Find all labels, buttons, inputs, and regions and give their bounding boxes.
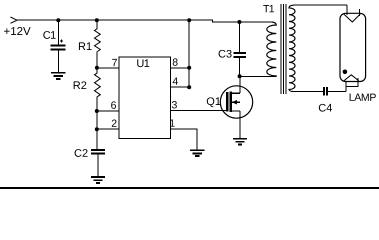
pin 1 (169, 118, 180, 130)
svg-text:C2: C2 (74, 148, 88, 160)
svg-text:1: 1 (169, 118, 175, 130)
pin 6 (106, 100, 119, 112)
lamp tube (340, 13, 366, 81)
svg-text:8: 8 (172, 57, 178, 69)
svg-text:R2: R2 (73, 80, 87, 92)
capacitor C3 (234, 53, 246, 57)
lamp dot (343, 70, 348, 75)
wire Q1 source down (239, 111, 241, 138)
node junction pin2 (95, 127, 99, 131)
wire C3 top (238, 22, 240, 52)
svg-text:R1: R1 (78, 41, 92, 53)
svg-text:+12V: +12V (3, 26, 31, 38)
capacitor C2 (91, 150, 105, 154)
wire pin3 to Q1 gate (181, 110, 227, 112)
svg-text:T1: T1 (263, 3, 275, 15)
wire C3 bottom (238, 58, 240, 77)
wire top rail (17, 20, 272, 22)
svg-text:4: 4 (172, 76, 178, 88)
wire C2 bottom (97, 155, 99, 177)
border bottom line (0, 187, 379, 189)
node junction pin6 (95, 109, 99, 113)
svg-text:2: 2 (111, 118, 117, 130)
lamp top pin lead (346, 5, 348, 15)
svg-text:LAMP: LAMP (349, 92, 377, 104)
node junction R1/R2/pin7 (95, 66, 99, 70)
ground under C2 (91, 177, 105, 183)
lamp top electrode (344, 14, 361, 22)
wire R1 bottom (96, 52, 98, 68)
svg-text:C4: C4 (318, 103, 332, 115)
ground under Q1 (233, 139, 247, 145)
pin 4 (170, 76, 180, 88)
wire primary bottom (240, 75, 277, 77)
wire pin4 to riser (181, 86, 190, 88)
lamp bottom pin stub (357, 78, 359, 87)
node junction pin4/riser (187, 85, 191, 89)
wire C2 top (96, 129, 98, 149)
svg-text:U1: U1 (136, 58, 149, 70)
wire R2 leads (96, 68, 98, 111)
resistor R1 (95, 29, 101, 52)
svg-text:C3: C3 (218, 49, 232, 61)
svg-text:C1: C1 (43, 30, 56, 42)
capacitor C1 (51, 39, 66, 49)
wire Q1 drain up (239, 76, 241, 93)
transistor Q1 NMOS (220, 86, 252, 118)
wire C1 top (57, 20, 59, 45)
node junction R1/rail (95, 18, 99, 22)
wire pin7 (97, 67, 119, 69)
pin 8 (170, 57, 180, 69)
node junction pin8/riser (187, 66, 191, 70)
pin 7 (106, 57, 119, 69)
lamp bottom pin lead (345, 82, 347, 92)
wire pin8 to riser (181, 67, 190, 69)
ground under pin1 (190, 150, 205, 156)
node junction C3/drain/primary (238, 74, 242, 78)
wire C1 bottom (57, 51, 59, 73)
transformer T1 core (281, 4, 286, 94)
wire secondary top to lamp (294, 4, 347, 6)
wire pin2 (97, 128, 119, 130)
svg-text:3: 3 (171, 99, 177, 111)
wire R1 top (96, 20, 98, 28)
wire C4 to lamp (328, 91, 346, 93)
wire secondary bottom to C4 (293, 91, 323, 93)
IC U1 555 timer box (119, 57, 170, 139)
pin 3 (170, 99, 180, 111)
transformer T1 primary winding (267, 22, 277, 76)
wire riser rail to pin4 (188, 20, 190, 87)
lamp bottom electrode (344, 75, 359, 81)
node junction C3/rail (237, 20, 241, 24)
lamp top pin stub (358, 9, 360, 16)
svg-text:7: 7 (112, 57, 118, 69)
node +12V input port (11, 17, 18, 23)
node junction C1/rail (56, 18, 60, 22)
svg-text:6: 6 (111, 100, 117, 112)
wire down to pin2 (96, 111, 98, 129)
transformer T1 secondary winding (289, 5, 295, 91)
lamp bottom bar (346, 86, 358, 88)
node junction riser/rail (187, 18, 191, 22)
ground under C1 (51, 73, 66, 79)
pin 2 (106, 118, 119, 130)
resistor R2 (95, 73, 101, 97)
wire pin1 to ground (181, 129, 197, 150)
wire pin6 (97, 110, 119, 112)
capacitor C4 (324, 87, 327, 95)
svg-text:Q1: Q1 (206, 96, 221, 108)
